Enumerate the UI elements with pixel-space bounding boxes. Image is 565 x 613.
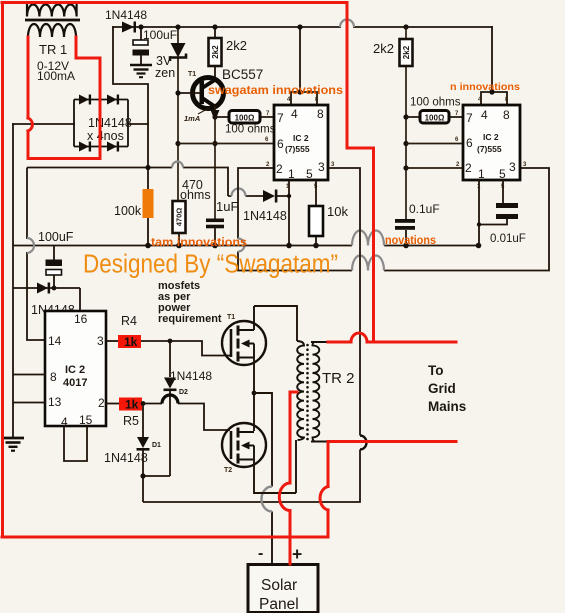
red hop x290 over source bus: [279, 483, 290, 511]
wire red through bridge: [99, 100, 102, 147]
svg-text:1: 1: [288, 167, 295, 181]
wire pin6 IC1: [178, 143, 274, 145]
resistor 100 ohms IC1 body: [229, 111, 260, 124]
wire 4017 pins 4,15 shorted: [64, 426, 87, 461]
wire red top rail: [2, 1, 347, 4]
bus270 right of double hop to IC2 pin3: [384, 168, 549, 271]
resistor 2k2 right lead: [405, 27, 407, 219]
wire IC2 pin2: [406, 167, 463, 169]
svg-text:2k2: 2k2: [211, 45, 220, 59]
wire left sub-box 1N4148/100uF loop: [113, 27, 148, 189]
ground symbol top-left: [130, 65, 152, 77]
transformer TR2 right winding: [313, 342, 320, 442]
svg-text:Solar: Solar: [261, 577, 297, 594]
svg-text:6: 6: [466, 136, 473, 150]
vertical x27 from wire A to 4017 pin14: [27, 168, 45, 341]
svg-text:swagatam innovations: swagatam innovations: [208, 85, 343, 97]
svg-text:4: 4: [481, 108, 488, 122]
wire IC1 pin5 to 10k: [315, 180, 317, 246]
resistor R5 1k: [119, 398, 142, 411]
wire TR2 secondary top lead black: [311, 341, 328, 343]
node dot base junction: [175, 90, 180, 95]
bridge diode top-right: [107, 95, 117, 105]
svg-text:13: 13: [48, 395, 62, 409]
svg-text:1N4148: 1N4148: [243, 209, 287, 223]
wire 4017 pin2 to R5: [106, 403, 119, 405]
IC1 555 box: [274, 105, 328, 180]
svg-text:zen: zen: [155, 66, 175, 80]
bridge diode bottom-right: [107, 142, 117, 152]
transistor T2 mosfet: [222, 423, 266, 467]
double hop bus270 over x360 and red: [352, 256, 384, 271]
IC1 small pin numbers: [265, 97, 335, 190]
resistor 10k body: [309, 206, 323, 236]
wire right rail corner down to IC2 bracket: [491, 27, 493, 92]
svg-text:7: 7: [466, 111, 473, 125]
transformer TR1 secondary coil: [28, 24, 76, 37]
svg-text:IC 2: IC 2: [483, 132, 499, 142]
red hop over pin3 drop: [351, 333, 367, 342]
red hop over bridge input wire: [28, 118, 32, 131]
wire IC1 supply drop: [299, 27, 301, 92]
node dot D1 top: [141, 401, 146, 406]
svg-text:10k: 10k: [327, 204, 348, 219]
hop pin2 drop over bus245: [238, 239, 245, 252]
svg-text:TR 2: TR 2: [322, 370, 355, 387]
label To Grid Mains: [428, 363, 466, 414]
transistor BC557: [178, 78, 224, 109]
bus245 ground bus: [13, 245, 479, 247]
wire AC input to bridge: [13, 123, 74, 125]
node dot 100uF/diode: [52, 286, 57, 291]
resistor 2k2 right body: [400, 39, 413, 66]
wire red grid bottom: [328, 440, 456, 443]
svg-text:To: To: [428, 363, 444, 378]
svg-text:1k: 1k: [125, 398, 139, 412]
svg-text:ohms: ohms: [180, 188, 211, 202]
svg-text:100uF: 100uF: [38, 230, 74, 244]
label mosfets as per power requirement: [158, 280, 222, 325]
wire D1-D2 bottoms join: [143, 475, 170, 477]
wire IC2 pin5 to 0.01uF: [502, 180, 504, 203]
wire red TR2 bottom branch down: [327, 442, 330, 538]
wire BC557 collector down: [214, 106, 216, 219]
svg-text:Grid: Grid: [428, 381, 456, 396]
capacitor 0.01uF: [496, 203, 518, 208]
op IC2 555 bracket pins 4,8: [481, 92, 507, 105]
svg-text:2: 2: [465, 161, 472, 175]
svg-text:D2: D2: [179, 389, 188, 396]
node dot pin6 junctions: [175, 141, 180, 146]
zener diode 3V: [171, 43, 186, 58]
solar panel box: [248, 565, 318, 613]
svg-text:T1: T1: [188, 71, 196, 78]
resistor 100 ohms IC2 leads: [406, 116, 463, 118]
svg-text:Panel: Panel: [259, 596, 299, 613]
hop x27 over bus245: [27, 238, 34, 253]
wire IC1 pin2 to bus270: [238, 168, 352, 271]
svg-text:3: 3: [509, 160, 516, 174]
diode 1N4148 top-left: [122, 22, 136, 33]
svg-text:4: 4: [291, 107, 298, 121]
svg-text:4017: 4017: [63, 377, 87, 389]
resistor 100 ohms IC2 body: [420, 111, 449, 124]
bridge diode bottom-left: [79, 142, 89, 152]
wire TR2 secondary bottom lead black: [311, 441, 328, 443]
wire T2 source to TR2 bottom: [254, 440, 296, 493]
wire red bottom rail: [2, 536, 328, 539]
svg-text:15: 15: [79, 413, 93, 427]
double hop bus245 over x360 and red: [352, 231, 384, 246]
IC2 small pin numbers: [455, 97, 527, 190]
svg-text:16: 16: [74, 312, 88, 326]
wire bridge output to x148: [128, 123, 148, 125]
svg-text:5: 5: [306, 167, 313, 181]
wire A: net from left box to diode: [27, 168, 289, 197]
hop of wire A over zener line: [172, 162, 183, 168]
IC2 555 box: [463, 105, 520, 180]
resistor R4 1k: [118, 335, 141, 348]
svg-text:2: 2: [98, 396, 105, 410]
wire R5 to T2 gate with black hook hop: [142, 404, 230, 431]
zener 3V lead: [177, 27, 179, 201]
bridge diode top-left: [79, 95, 89, 105]
svg-text:R5: R5: [123, 414, 139, 428]
svg-text:T1: T1: [227, 314, 235, 321]
svg-text:100 ohms: 100 ohms: [410, 97, 461, 109]
svg-text:1uF: 1uF: [216, 199, 238, 214]
resistor 100 ohms IC1 leads: [215, 116, 274, 118]
wire IC2 pin6: [406, 143, 463, 145]
wire top supply rail: [113, 26, 492, 28]
node dots top rail: [138, 24, 408, 29]
node dot x148 wireA: [145, 165, 150, 170]
svg-text:2k2: 2k2: [226, 38, 247, 53]
collector current arrow: [211, 110, 220, 121]
svg-text:6: 6: [277, 137, 284, 151]
svg-text:1N4148: 1N4148: [105, 8, 147, 22]
resistor 470 ohms body: [173, 201, 186, 233]
wire red grid top: [328, 341, 351, 344]
resistor 2k2 left body: [209, 38, 222, 66]
ground symbol bottom-left: [2, 438, 24, 451]
resistor 100k body: [143, 189, 154, 218]
node dot D2 top: [168, 339, 173, 344]
transformer TR1 core bar: [25, 19, 80, 22]
wire red left rail: [1, 3, 4, 538]
svg-text:0.1uF: 0.1uF: [409, 202, 440, 216]
node dots bus245: [145, 243, 481, 249]
svg-text:14: 14: [48, 334, 62, 348]
svg-text:IC 2: IC 2: [65, 364, 85, 376]
wire red TR1 secondary left lead: [27, 37, 30, 118]
hop top rail over red drop: [340, 20, 354, 27]
svg-text:100k: 100k: [114, 204, 142, 218]
node dot collector junction pin7: [212, 114, 217, 119]
svg-text:100 ohms: 100 ohms: [225, 124, 276, 136]
svg-text:470Ω: 470Ω: [175, 208, 184, 227]
IC3 4017 box: [45, 311, 106, 426]
svg-text:8: 8: [50, 370, 57, 384]
svg-text:7: 7: [277, 111, 284, 125]
wire T1 drain to TR2 top: [254, 306, 297, 341]
svg-text:100Ω: 100Ω: [235, 114, 255, 123]
svg-text:1N4148: 1N4148: [170, 369, 212, 383]
svg-text:1N4148: 1N4148: [104, 451, 148, 465]
svg-text:5: 5: [499, 167, 506, 181]
node dot midpoint: [252, 391, 257, 396]
svg-text:100Ω: 100Ω: [425, 114, 445, 123]
capacitor 0.1uF: [395, 219, 415, 223]
svg-text:2: 2: [276, 162, 283, 176]
svg-text:tam innovations: tam innovations: [151, 237, 247, 249]
svg-text:requirement: requirement: [158, 313, 222, 325]
svg-text:3: 3: [318, 160, 325, 174]
svg-text:100uF: 100uF: [143, 28, 177, 42]
wire 4017 pin13: [13, 402, 45, 404]
svg-text:Mains: Mains: [428, 399, 466, 414]
svg-text:D1: D1: [152, 442, 161, 449]
red hop x328 over source bus: [320, 487, 328, 511]
wire 4017 pin8: [13, 374, 45, 376]
capacitor 100uF left-bottom lead: [53, 246, 55, 289]
svg-text:-: -: [258, 545, 263, 562]
black hop x360 over red grid wire: [360, 436, 367, 450]
svg-text:Designed By “Swagatam”: Designed By “Swagatam”: [83, 251, 338, 279]
bridge rectifier box 1N4148 x 4nos: [74, 100, 128, 147]
node dots x406: [403, 114, 408, 119]
wire red right drop from top: [347, 3, 374, 342]
diode D1 1N4148: [142, 404, 144, 438]
black hop R5 wire over D2 line: [162, 395, 178, 404]
capacitor 1uF: [206, 219, 224, 223]
transformer TR2 left winding: [297, 341, 304, 440]
svg-text:x 4nos: x 4nos: [87, 129, 124, 143]
svg-text:8: 8: [317, 107, 324, 121]
svg-text:(7)555: (7)555: [285, 144, 310, 154]
svg-text:n innovations: n innovations: [450, 81, 520, 93]
svg-text:3: 3: [97, 334, 104, 348]
diode 1N4148 at IC1 pin1: [263, 190, 275, 202]
wire 4017 pin3 to R4: [106, 340, 118, 342]
capacitor 100uF top-left: [133, 27, 150, 64]
diode D2 1N4148: [169, 341, 171, 377]
svg-text:TR 1: TR 1: [39, 42, 67, 57]
wire red TR2 center tap: [290, 392, 297, 564]
op IC1 555 bracket pins 4,8: [291, 92, 317, 105]
transistor T1 mosfet: [222, 306, 266, 365]
wire red TR1 secondary right lead: [76, 37, 100, 100]
wire IC1 pin3 output: [143, 168, 360, 502]
svg-text:100mA: 100mA: [37, 69, 75, 83]
transformer TR2 core dotted: [306, 344, 309, 441]
svg-text:(7)555: (7)555: [477, 144, 502, 154]
svg-text:8: 8: [503, 108, 510, 122]
svg-text:+: +: [292, 544, 302, 564]
capacitor 100uF left-bottom: [46, 260, 63, 267]
wire T1 source to T2 drain: [253, 358, 255, 432]
hop of wire A over pin2 drop: [232, 189, 246, 196]
svg-text:1k: 1k: [124, 335, 138, 349]
svg-text:0.01uF: 0.01uF: [490, 233, 526, 245]
resistor 2k2 left lead: [214, 27, 216, 77]
wire supply to 4017 pin16: [13, 288, 80, 311]
svg-text:novations: novations: [385, 235, 436, 247]
svg-text:1mA: 1mA: [184, 114, 200, 123]
wire red grid top right: [367, 341, 456, 344]
wire R4 to T1 gate: [141, 341, 230, 356]
svg-text:T2: T2: [224, 467, 232, 474]
wire red TR1 left lead to bottom loop: [28, 131, 100, 159]
svg-text:BC557: BC557: [222, 67, 263, 82]
svg-text:2k2: 2k2: [373, 41, 394, 56]
svg-text:1N4148: 1N4148: [88, 116, 132, 130]
wire midpoint to solar minus: [254, 393, 272, 564]
svg-text:2k2: 2k2: [402, 45, 411, 59]
svg-text:1: 1: [478, 167, 485, 181]
svg-text:R4: R4: [121, 314, 137, 328]
wire left ground rail: [12, 124, 14, 437]
svg-text:IC 2: IC 2: [293, 133, 309, 143]
diode 1N4148 supply 4017: [37, 283, 48, 294]
transformer TR1 primary coil: [27, 3, 77, 17]
wire IC1 pin1 down: [288, 180, 290, 246]
gray hop x272 over source bus: [262, 487, 273, 512]
